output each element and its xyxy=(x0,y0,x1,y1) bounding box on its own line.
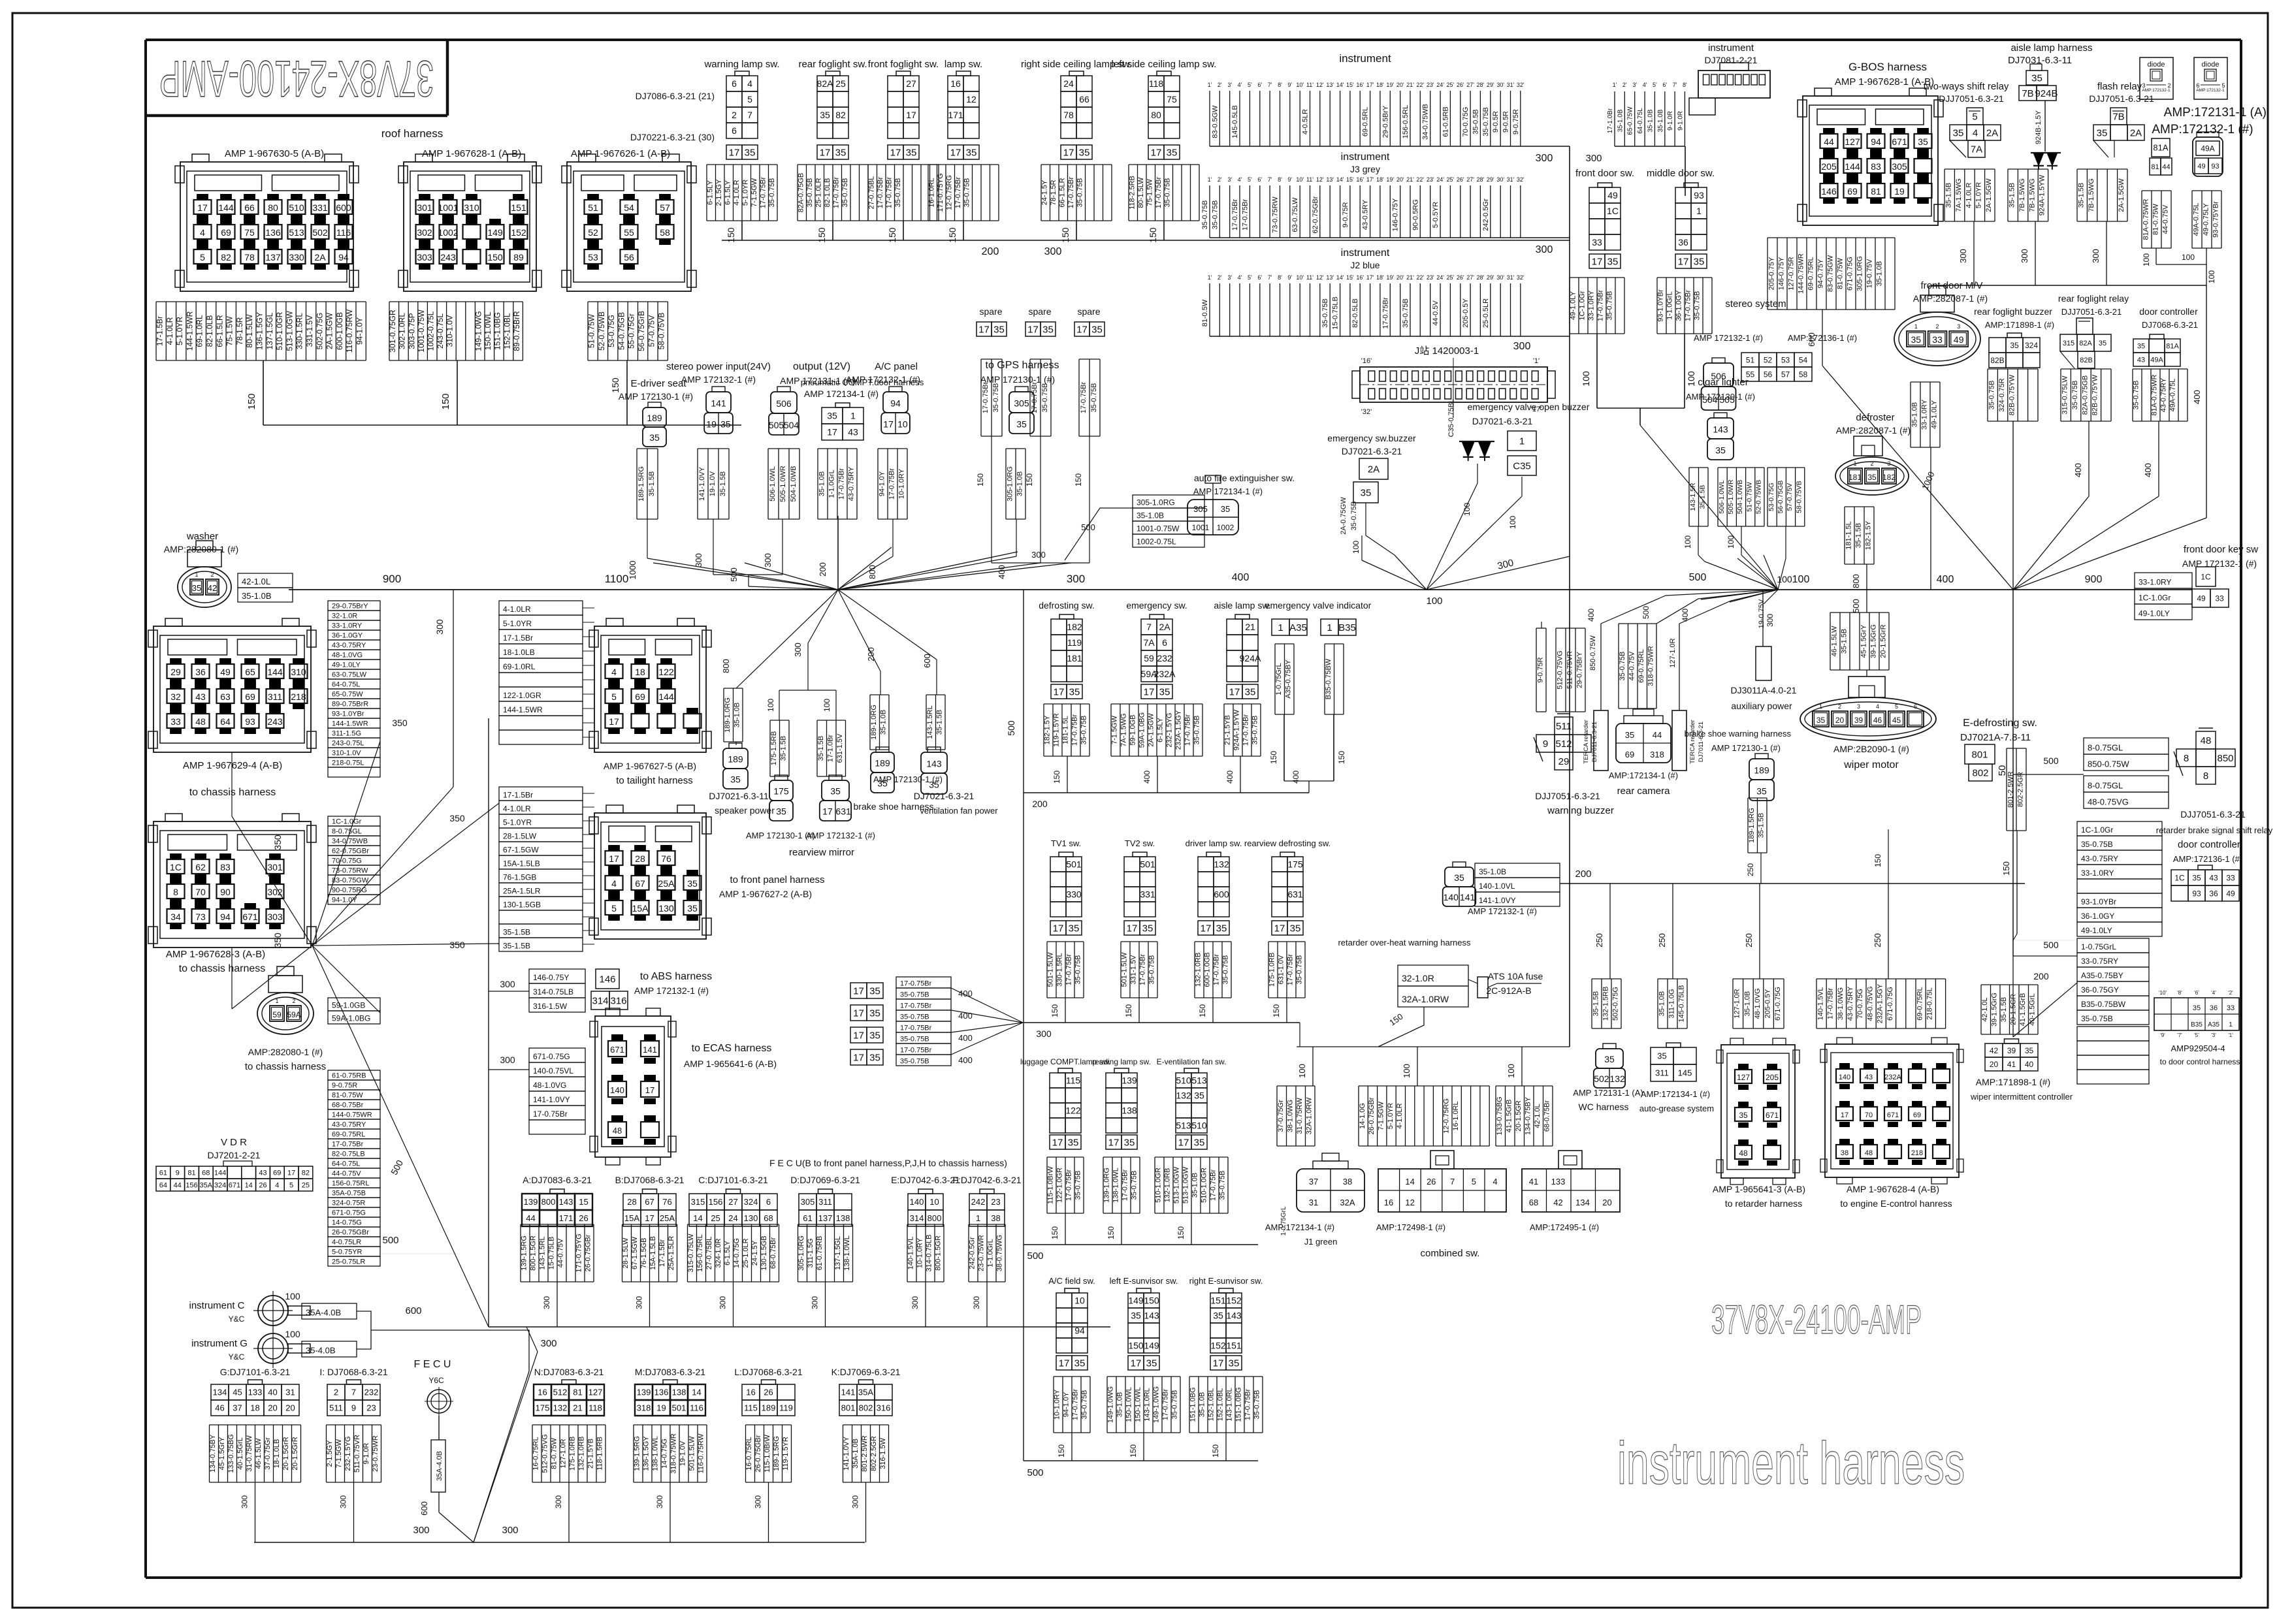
svg-text:511: 511 xyxy=(329,1403,343,1413)
svg-text:17-0.75Br: 17-0.75Br xyxy=(885,177,893,209)
svg-text:510-1.0GR: 510-1.0GR xyxy=(1155,1168,1163,1203)
svg-text:81-0.75W: 81-0.75W xyxy=(2152,204,2159,235)
svg-text:35A: 35A xyxy=(858,1388,873,1397)
svg-text:15-0.75LB: 15-0.75LB xyxy=(548,1237,556,1270)
svg-text:to retarder harness: to retarder harness xyxy=(1725,1198,1802,1209)
svg-text:141-1.0VY: 141-1.0VY xyxy=(1479,896,1516,905)
svg-text:504-1.0WB: 504-1.0WB xyxy=(790,466,798,502)
svg-text:14-0.75G: 14-0.75G xyxy=(661,1439,669,1469)
svg-text:17-0.75Br: 17-0.75Br xyxy=(1072,1389,1080,1421)
svg-text:1: 1 xyxy=(275,998,278,1004)
svg-text:70-0.75G: 70-0.75G xyxy=(1856,989,1864,1019)
svg-text:9: 9 xyxy=(1543,739,1548,750)
svg-text:100: 100 xyxy=(2142,253,2151,266)
svg-text:35: 35 xyxy=(1911,334,1922,345)
svg-text:20-1.5GrR: 20-1.5GrR xyxy=(1879,624,1887,658)
svg-text:100: 100 xyxy=(1508,516,1517,529)
svg-text:501-1.5LW: 501-1.5LW xyxy=(688,1436,696,1471)
svg-text:35: 35 xyxy=(1016,419,1027,429)
svg-text:300: 300 xyxy=(1513,341,1531,352)
svg-text:59: 59 xyxy=(272,1010,282,1019)
svg-text:29-0.75BrY: 29-0.75BrY xyxy=(1575,652,1583,688)
svg-text:9-0.75R: 9-0.75R xyxy=(1512,109,1520,135)
svg-text:8': 8' xyxy=(1278,274,1282,281)
svg-text:243-0.75L: 243-0.75L xyxy=(332,740,364,748)
svg-text:118: 118 xyxy=(589,1403,602,1413)
svg-text:DJ7021-6.3-11: DJ7021-6.3-11 xyxy=(709,791,769,801)
svg-text:16-0.75RL: 16-0.75RL xyxy=(532,1437,540,1470)
svg-text:10': 10' xyxy=(1296,82,1304,88)
svg-text:20: 20 xyxy=(1602,1198,1611,1207)
svg-text:9-1.0R: 9-1.0R xyxy=(363,1442,370,1464)
svg-text:80: 80 xyxy=(268,202,278,213)
svg-text:46-1.5LW: 46-1.5LW xyxy=(1830,626,1838,656)
svg-text:'7': '7' xyxy=(2177,1032,2182,1038)
svg-text:17: 17 xyxy=(822,806,833,817)
svg-text:43: 43 xyxy=(2209,873,2218,882)
svg-text:35: 35 xyxy=(1229,1358,1240,1369)
svg-text:118-2.5RB: 118-2.5RB xyxy=(1128,176,1136,210)
svg-text:rear foglight sw.: rear foglight sw. xyxy=(798,59,867,70)
svg-text:49: 49 xyxy=(2197,594,2206,603)
svg-text:37: 37 xyxy=(1309,1177,1318,1186)
svg-text:B35-0.75BW: B35-0.75BW xyxy=(2081,1000,2126,1009)
svg-text:181-1.5L: 181-1.5L xyxy=(1062,716,1070,744)
svg-text:53-0.75G: 53-0.75G xyxy=(607,315,616,347)
svg-text:800: 800 xyxy=(928,1213,942,1223)
svg-text:69: 69 xyxy=(1913,1111,1921,1119)
svg-text:22': 22' xyxy=(1416,176,1424,183)
svg-text:27: 27 xyxy=(906,78,916,89)
svg-text:35: 35 xyxy=(1715,445,1726,455)
svg-text:69: 69 xyxy=(245,692,255,702)
svg-text:502-0.75G: 502-0.75G xyxy=(315,313,324,350)
svg-text:35-0.75B: 35-0.75B xyxy=(1041,383,1049,413)
svg-text:100: 100 xyxy=(1462,503,1472,516)
svg-text:37-0.75Gr: 37-0.75Gr xyxy=(264,1437,272,1470)
svg-text:35-1.0B: 35-1.0B xyxy=(1617,109,1624,132)
svg-text:17-0.75Br: 17-0.75Br xyxy=(1155,177,1163,209)
svg-text:7: 7 xyxy=(747,110,752,120)
svg-text:25: 25 xyxy=(835,78,846,89)
svg-text:35: 35 xyxy=(827,411,837,421)
svg-text:2A: 2A xyxy=(314,252,326,263)
svg-text:53: 53 xyxy=(588,252,598,263)
svg-text:35: 35 xyxy=(1074,1358,1086,1369)
svg-text:rearview mirror: rearview mirror xyxy=(789,847,854,858)
svg-text:AMP 172132-1 (#): AMP 172132-1 (#) xyxy=(1468,906,1537,916)
svg-text:48: 48 xyxy=(613,1126,622,1136)
svg-text:78-1.5R: 78-1.5R xyxy=(235,317,244,345)
svg-text:9-0.5R: 9-0.5R xyxy=(1492,111,1500,133)
svg-text:2: 2 xyxy=(2167,82,2171,89)
svg-text:35-0.75B: 35-0.75B xyxy=(1080,716,1088,745)
svg-text:67: 67 xyxy=(635,878,645,889)
svg-text:17: 17 xyxy=(978,324,990,335)
svg-text:100: 100 xyxy=(766,699,775,712)
svg-text:39: 39 xyxy=(2007,1046,2016,1055)
svg-text:70: 70 xyxy=(1865,1111,1873,1119)
svg-text:305: 305 xyxy=(801,1197,815,1207)
svg-text:49-1.0LY: 49-1.0LY xyxy=(2081,926,2112,935)
svg-text:43: 43 xyxy=(848,427,858,438)
svg-text:32A-1.0RW: 32A-1.0RW xyxy=(1402,994,1449,1004)
svg-text:801: 801 xyxy=(841,1403,856,1413)
svg-text:44-0.75V: 44-0.75V xyxy=(332,1170,361,1178)
svg-text:12: 12 xyxy=(966,94,977,104)
svg-text:150: 150 xyxy=(1057,1444,1066,1457)
svg-text:A35-0.75BY: A35-0.75BY xyxy=(2081,971,2123,980)
svg-text:26-0.75GBr: 26-0.75GBr xyxy=(1368,1097,1376,1134)
svg-text:17: 17 xyxy=(1151,147,1162,158)
svg-text:17-0.75Br: 17-0.75Br xyxy=(877,177,884,209)
svg-text:AMP 172132-1 (#): AMP 172132-1 (#) xyxy=(1694,333,1763,343)
svg-text:302: 302 xyxy=(417,227,432,238)
svg-text:49: 49 xyxy=(2226,889,2235,898)
svg-text:4-1.0LR: 4-1.0LR xyxy=(165,317,174,345)
svg-text:200: 200 xyxy=(1032,799,1048,809)
svg-text:36: 36 xyxy=(195,667,206,677)
svg-text:36-1.0GY: 36-1.0GY xyxy=(332,632,363,640)
svg-text:35: 35 xyxy=(1867,473,1877,482)
svg-text:17: 17 xyxy=(827,427,837,438)
svg-text:4-1.0LR: 4-1.0LR xyxy=(503,605,531,614)
svg-text:300: 300 xyxy=(540,1338,557,1349)
svg-text:150: 150 xyxy=(1050,1004,1059,1017)
svg-text:82-0.75LB: 82-0.75LB xyxy=(332,1151,365,1158)
svg-text:924B-1.5Y: 924B-1.5Y xyxy=(2035,110,2042,144)
svg-text:17: 17 xyxy=(1127,923,1138,934)
svg-text:232: 232 xyxy=(1157,653,1172,663)
svg-text:35-0.75B: 35-0.75B xyxy=(900,991,929,998)
svg-text:144: 144 xyxy=(267,667,283,677)
svg-text:9-0.75R: 9-0.75R xyxy=(1342,202,1349,227)
svg-text:17: 17 xyxy=(287,1170,295,1177)
svg-text:15A: 15A xyxy=(632,903,649,914)
svg-text:35-0.75B: 35-0.75B xyxy=(1619,652,1626,681)
svg-text:7': 7' xyxy=(1268,176,1272,183)
svg-text:23': 23' xyxy=(1427,176,1434,183)
svg-text:instrument G: instrument G xyxy=(191,1338,248,1349)
svg-text:15-0.75LB: 15-0.75LB xyxy=(1332,296,1340,330)
svg-text:136: 136 xyxy=(265,227,281,238)
svg-text:59: 59 xyxy=(1144,653,1154,663)
svg-text:175-1.0RB: 175-1.0RB xyxy=(1268,953,1276,987)
svg-text:600-1.0GB: 600-1.0GB xyxy=(1204,952,1212,987)
svg-text:55: 55 xyxy=(624,227,634,238)
svg-text:502: 502 xyxy=(1594,1074,1609,1084)
svg-text:35-0.75B: 35-0.75B xyxy=(2133,381,2140,410)
svg-text:35: 35 xyxy=(1739,1111,1748,1120)
svg-text:V D R: V D R xyxy=(221,1137,247,1148)
svg-text:9-1.0R: 9-1.0R xyxy=(1667,111,1674,131)
svg-text:116: 116 xyxy=(690,1403,703,1413)
svg-text:171-0.75YG: 171-0.75YG xyxy=(575,1234,583,1272)
svg-text:3: 3 xyxy=(1957,323,1960,330)
svg-text:310: 310 xyxy=(464,202,479,213)
svg-text:E:DJ7042-6.3-21: E:DJ7042-6.3-21 xyxy=(891,1175,960,1185)
svg-text:151: 151 xyxy=(511,202,526,213)
svg-text:19-1.0V: 19-1.0V xyxy=(709,471,717,496)
svg-text:A:DJ7083-6.3-21: A:DJ7083-6.3-21 xyxy=(523,1175,592,1185)
svg-text:44-0.5V: 44-0.5V xyxy=(1432,300,1440,326)
svg-text:35: 35 xyxy=(2031,72,2042,84)
svg-text:B:DJ7068-6.3-21: B:DJ7068-6.3-21 xyxy=(615,1175,685,1185)
svg-text:9': 9' xyxy=(1287,176,1292,183)
svg-text:90-0.5RG: 90-0.5RG xyxy=(1412,199,1419,231)
svg-text:300: 300 xyxy=(413,1525,429,1536)
svg-text:17-0.75Br: 17-0.75Br xyxy=(1210,1170,1218,1202)
svg-text:35-1.5B: 35-1.5B xyxy=(780,736,788,761)
svg-text:138-1.0WL: 138-1.0WL xyxy=(843,1235,851,1271)
svg-text:400: 400 xyxy=(2143,463,2153,477)
svg-text:40-1.5GrL: 40-1.5GrL xyxy=(236,1437,244,1470)
svg-text:door controller: door controller xyxy=(2178,839,2240,850)
svg-text:18-1.0LB: 18-1.0LB xyxy=(273,1439,281,1469)
svg-text:21: 21 xyxy=(573,1403,582,1413)
svg-text:924A-1.5YW: 924A-1.5YW xyxy=(1233,709,1241,750)
svg-text:49-1.0LY: 49-1.0LY xyxy=(1570,291,1577,319)
svg-text:43-0.75RY: 43-0.75RY xyxy=(2160,377,2168,412)
svg-text:17: 17 xyxy=(1053,923,1064,934)
svg-text:300: 300 xyxy=(2020,249,2029,263)
svg-text:63-0.75LW: 63-0.75LW xyxy=(1291,197,1299,232)
svg-text:31: 31 xyxy=(1309,1198,1318,1207)
svg-text:137: 137 xyxy=(265,252,281,263)
svg-text:43-0.75RY: 43-0.75RY xyxy=(332,642,366,650)
svg-text:100: 100 xyxy=(822,699,831,712)
svg-text:'32': '32' xyxy=(1361,408,1372,416)
svg-text:17-0.75Br: 17-0.75Br xyxy=(1242,714,1250,746)
svg-text:M:DJ7083-6.3-21: M:DJ7083-6.3-21 xyxy=(635,1367,705,1377)
svg-text:600: 600 xyxy=(922,654,932,668)
svg-text:39-1.5GrG: 39-1.5GrG xyxy=(1869,624,1877,658)
svg-text:127-1.0R: 127-1.0R xyxy=(1734,989,1741,1018)
svg-text:189: 189 xyxy=(647,413,662,423)
svg-text:82B-0.75YW: 82B-0.75YW xyxy=(2008,374,2016,415)
svg-text:8': 8' xyxy=(1278,82,1282,88)
svg-text:31': 31' xyxy=(1507,82,1515,88)
svg-text:59A: 59A xyxy=(287,1010,300,1019)
svg-text:46: 46 xyxy=(1873,716,1882,725)
svg-text:3': 3' xyxy=(1632,82,1637,88)
svg-text:4-0.75LR: 4-0.75LR xyxy=(332,1239,361,1247)
svg-text:14': 14' xyxy=(1336,274,1344,281)
svg-text:116-0.75RW: 116-0.75RW xyxy=(698,1433,705,1473)
svg-text:150: 150 xyxy=(976,473,985,486)
svg-text:2': 2' xyxy=(1218,274,1222,281)
svg-text:2': 2' xyxy=(1218,176,1222,183)
svg-text:850: 850 xyxy=(2217,753,2233,764)
svg-text:29': 29' xyxy=(1487,176,1494,183)
svg-text:94: 94 xyxy=(1871,136,1881,147)
svg-text:311: 311 xyxy=(1655,1068,1669,1078)
svg-text:35: 35 xyxy=(1091,324,1103,335)
svg-text:6: 6 xyxy=(1162,637,1167,648)
svg-text:20-1.5GrR: 20-1.5GrR xyxy=(282,1437,290,1470)
svg-text:150: 150 xyxy=(1106,1226,1116,1239)
svg-text:AMP 172131-1 (A): AMP 172131-1 (A) xyxy=(1573,1088,1643,1098)
svg-text:330-1.5RL: 330-1.5RL xyxy=(295,313,304,349)
svg-text:150: 150 xyxy=(1269,751,1278,764)
svg-text:314-0.75LB: 314-0.75LB xyxy=(533,987,573,996)
svg-text:331: 331 xyxy=(312,202,328,213)
svg-text:49A: 49A xyxy=(2150,357,2163,364)
svg-text:E-ventilation fan sw.: E-ventilation fan sw. xyxy=(1157,1057,1227,1066)
svg-text:35-0.75B: 35-0.75B xyxy=(894,178,902,208)
svg-text:32A: 32A xyxy=(1340,1198,1355,1207)
svg-text:43-0.75RY: 43-0.75RY xyxy=(1847,986,1854,1021)
svg-text:57-0.75V: 57-0.75V xyxy=(647,315,656,347)
svg-text:retarder brake signal shift re: retarder brake signal shift relay xyxy=(2156,825,2273,835)
svg-text:57: 57 xyxy=(1781,370,1790,379)
svg-text:139-1.5RG: 139-1.5RG xyxy=(634,1436,641,1471)
svg-text:17: 17 xyxy=(1063,147,1074,158)
svg-text:303: 303 xyxy=(417,252,432,263)
svg-text:17-0.75Br: 17-0.75Br xyxy=(759,177,767,209)
svg-text:58-0.75VB: 58-0.75VB xyxy=(1795,481,1803,513)
svg-text:218-0.75L: 218-0.75L xyxy=(332,759,364,767)
svg-text:502-0.75G: 502-0.75G xyxy=(1611,987,1619,1021)
svg-text:35-1.5B: 35-1.5B xyxy=(2078,183,2086,208)
svg-text:J3 grey: J3 grey xyxy=(1350,164,1380,174)
svg-text:144-1.5WR: 144-1.5WR xyxy=(332,720,368,728)
svg-text:82-1.0LB: 82-1.0LB xyxy=(205,315,214,347)
svg-text:35-0.75B: 35-0.75B xyxy=(1253,1390,1261,1420)
svg-text:924A-1.5YW: 924A-1.5YW xyxy=(2039,174,2046,215)
svg-text:to ECAS harness: to ECAS harness xyxy=(692,1043,772,1054)
svg-text:AMP 172134-1 (#): AMP 172134-1 (#) xyxy=(804,389,879,399)
svg-text:140-0.75VL: 140-0.75VL xyxy=(533,1066,573,1075)
svg-text:AMP 172130-1 (#): AMP 172130-1 (#) xyxy=(619,391,693,402)
svg-text:35-0.75B: 35-0.75B xyxy=(1148,955,1156,985)
svg-text:instrument: instrument xyxy=(1341,247,1390,259)
svg-text:5-1.0YR: 5-1.0YR xyxy=(741,180,749,206)
svg-text:19: 19 xyxy=(656,1403,666,1413)
svg-text:2A: 2A xyxy=(2130,127,2142,138)
svg-text:17: 17 xyxy=(853,1052,864,1063)
svg-text:1-0.75GrL: 1-0.75GrL xyxy=(1275,663,1283,695)
svg-text:17: 17 xyxy=(197,202,208,213)
svg-text:5': 5' xyxy=(1248,176,1252,183)
svg-text:to ABS harness: to ABS harness xyxy=(640,971,712,982)
svg-text:5: 5 xyxy=(611,903,617,914)
svg-text:24': 24' xyxy=(1436,176,1444,183)
svg-text:400: 400 xyxy=(997,565,1007,579)
svg-text:35-0.75B: 35-0.75B xyxy=(1131,1171,1138,1200)
svg-text:35-1.0B: 35-1.0B xyxy=(1743,991,1751,1017)
svg-text:1C-1.0Gr: 1C-1.0Gr xyxy=(332,818,362,826)
svg-text:33-1.0RY: 33-1.0RY xyxy=(2081,868,2114,878)
svg-text:802: 802 xyxy=(859,1403,873,1413)
svg-text:7B-1.5WG: 7B-1.5WG xyxy=(2028,178,2036,212)
svg-text:35: 35 xyxy=(1167,147,1178,158)
svg-text:17-0.75Br: 17-0.75Br xyxy=(1381,297,1389,329)
svg-text:800: 800 xyxy=(721,659,731,673)
svg-text:14': 14' xyxy=(1336,176,1344,183)
svg-text:7: 7 xyxy=(1450,1177,1455,1186)
svg-text:35-1.5B: 35-1.5B xyxy=(1840,629,1848,654)
svg-text:2': 2' xyxy=(1622,82,1627,88)
svg-text:512: 512 xyxy=(553,1388,568,1397)
svg-text:right E-sunvisor sw.: right E-sunvisor sw. xyxy=(1189,1276,1263,1286)
svg-text:cigar lighter: cigar lighter xyxy=(1698,377,1749,388)
svg-text:62-0.75GBr: 62-0.75GBr xyxy=(1312,196,1319,233)
svg-text:35: 35 xyxy=(1069,686,1080,697)
svg-text:171-0.75YG: 171-0.75YG xyxy=(937,173,944,212)
svg-text:20: 20 xyxy=(268,1403,277,1413)
svg-text:119-1.5YR: 119-1.5YR xyxy=(782,1437,790,1471)
svg-text:38: 38 xyxy=(991,1213,1000,1223)
svg-text:149-1.0WG: 149-1.0WG xyxy=(1153,1386,1161,1423)
svg-text:35-1.0B: 35-1.0B xyxy=(1199,1392,1206,1418)
svg-text:52-0.75WB: 52-0.75WB xyxy=(1755,480,1763,515)
svg-text:35: 35 xyxy=(1694,256,1705,267)
svg-text:21': 21' xyxy=(1406,82,1414,88)
svg-text:115: 115 xyxy=(744,1403,758,1413)
svg-text:32A-1.0RW: 32A-1.0RW xyxy=(1306,1097,1314,1134)
svg-text:138: 138 xyxy=(672,1388,686,1397)
svg-text:5-1.0YR: 5-1.0YR xyxy=(503,619,532,628)
svg-text:K:DJ7069-6.3-21: K:DJ7069-6.3-21 xyxy=(831,1367,901,1377)
svg-text:auto fire extinguisher sw.: auto fire extinguisher sw. xyxy=(1194,473,1295,483)
svg-text:800-1.5GR: 800-1.5GR xyxy=(530,1235,538,1271)
svg-text:310: 310 xyxy=(291,667,306,677)
svg-text:J1 green: J1 green xyxy=(1304,1237,1338,1247)
svg-text:35-0.75B: 35-0.75B xyxy=(1694,291,1702,321)
svg-text:232A-1.5GY: 232A-1.5GY xyxy=(1877,983,1884,1023)
svg-text:500: 500 xyxy=(729,567,739,582)
svg-text:151: 151 xyxy=(1210,1296,1226,1306)
svg-text:69-1.0RL: 69-1.0RL xyxy=(195,315,204,347)
svg-text:61: 61 xyxy=(159,1170,167,1177)
svg-text:5-1.0YR: 5-1.0YR xyxy=(175,317,184,345)
svg-text:35-0.75B: 35-0.75B xyxy=(1222,955,1230,985)
svg-text:89-0.75BrR: 89-0.75BrR xyxy=(512,311,521,351)
svg-text:6-1.5LY: 6-1.5LY xyxy=(724,1240,732,1265)
svg-text:35-0.75B: 35-0.75B xyxy=(2081,840,2113,849)
svg-text:69: 69 xyxy=(273,1170,281,1177)
svg-text:305: 305 xyxy=(1014,398,1029,408)
svg-text:152: 152 xyxy=(1226,1296,1242,1306)
svg-text:42: 42 xyxy=(1553,1198,1562,1207)
svg-text:350: 350 xyxy=(272,835,283,850)
svg-text:6': 6' xyxy=(1257,274,1262,281)
svg-text:70: 70 xyxy=(195,887,206,897)
svg-text:17-0.75Br: 17-0.75Br xyxy=(1065,1170,1073,1202)
svg-text:24: 24 xyxy=(1063,78,1074,89)
svg-text:35: 35 xyxy=(869,1008,880,1019)
svg-text:118: 118 xyxy=(1149,78,1164,89)
svg-text:42-1.0L: 42-1.0L xyxy=(242,577,270,586)
svg-text:35: 35 xyxy=(1216,923,1227,934)
svg-text:232-1.5YG: 232-1.5YG xyxy=(344,1436,352,1471)
svg-text:7A-1.5WG: 7A-1.5WG xyxy=(1120,713,1128,746)
svg-text:5-1.0YR: 5-1.0YR xyxy=(1387,1103,1395,1129)
svg-text:150: 150 xyxy=(1052,771,1061,784)
svg-text:A/C panel: A/C panel xyxy=(875,361,918,372)
svg-text:175-1.0RB: 175-1.0RB xyxy=(569,1437,577,1471)
svg-text:DJ7011-6.3-21: DJ7011-6.3-21 xyxy=(1591,722,1598,762)
svg-text:35: 35 xyxy=(730,774,741,785)
svg-text:500: 500 xyxy=(1081,522,1095,532)
svg-text:48-1.0VG: 48-1.0VG xyxy=(1754,988,1762,1019)
svg-text:118-1.5RB: 118-1.5RB xyxy=(596,1437,604,1471)
svg-text:300: 300 xyxy=(1036,1028,1052,1039)
svg-text:17-0.75Br: 17-0.75Br xyxy=(1231,199,1239,231)
svg-text:16-1.0RL: 16-1.0RL xyxy=(1452,1101,1460,1130)
svg-text:front door sw.: front door sw. xyxy=(1575,168,1634,179)
